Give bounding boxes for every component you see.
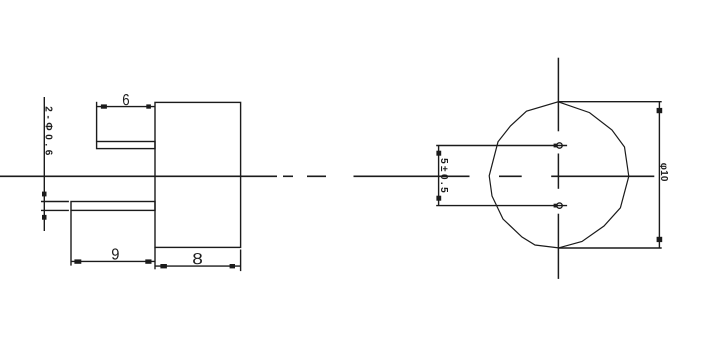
dimension 6 line	[97, 106, 155, 108]
svg-text:8: 8	[192, 251, 203, 268]
upper pin leader line	[436, 145, 567, 147]
dimension 9 line	[71, 260, 155, 262]
upper pin leader arrow	[554, 144, 558, 148]
lower pin leader line	[436, 205, 567, 207]
dimension 6 extension line	[96, 102, 98, 142]
svg-text:2-Φ0.6: 2-Φ0.6	[43, 106, 54, 159]
buzzer face circle (front view, polygonal)	[489, 102, 629, 248]
buzzer body (side view)	[155, 102, 241, 247]
svg-text:6: 6	[122, 92, 129, 109]
svg-text:9: 9	[111, 247, 119, 264]
lower pin hole (front view)	[557, 203, 562, 208]
dimension PHI10 extension lines	[558, 101, 662, 103]
dimension 2-PHI0.6 line	[43, 97, 45, 231]
vertical centerline	[557, 58, 559, 279]
svg-text:5±0.5: 5±0.5	[438, 158, 449, 195]
upper pin (side view)	[97, 142, 155, 149]
dimension 5±0.5 arrows	[436, 151, 441, 156]
dimension 8 extension lines	[154, 247, 156, 269]
dimension 2-PHI0.6 arrows	[42, 192, 47, 197]
dimension PHI10 arrows	[657, 108, 663, 113]
dimension PHI10 line	[658, 102, 660, 248]
lower pin leader arrow	[554, 204, 558, 208]
dimension 2-PHI0.6 extension lines	[41, 201, 69, 203]
svg-text:φ10: φ10	[658, 163, 669, 182]
dimension 6 arrows	[101, 104, 107, 108]
horizontal centerline	[0, 175, 654, 177]
dimension 5±0.5 line	[438, 146, 440, 206]
upper pin hole (front view)	[557, 143, 562, 148]
dimension 8 line	[155, 265, 240, 267]
lower pin (side view)	[71, 202, 155, 211]
dimension 9 arrows	[74, 259, 81, 263]
dimension 9 extension line	[70, 210, 72, 265]
dimension 8 arrows	[160, 264, 167, 268]
